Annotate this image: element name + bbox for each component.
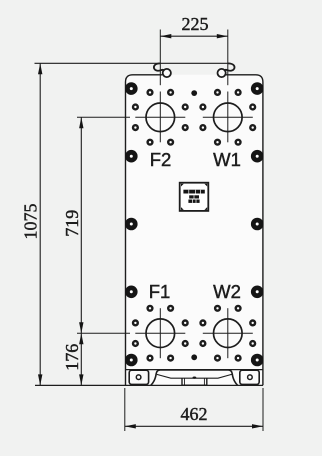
dim 462 extension left — [124, 388, 126, 431]
svg-text:W1: W1 — [213, 149, 241, 170]
svg-text:1075: 1075 — [20, 204, 40, 240]
frame edge bolt holes — [130, 87, 259, 361]
ground baseline — [35, 384, 263, 386]
svg-text:719: 719 — [62, 210, 82, 237]
lifting eye right — [218, 63, 235, 77]
centre stud top — [191, 90, 197, 96]
svg-text:462: 462 — [181, 404, 208, 424]
body bottom edge — [126, 369, 263, 371]
port F1 flange bolts — [133, 306, 188, 361]
dim 719 bottom extension — [77, 332, 130, 334]
svg-text:176: 176 — [62, 344, 82, 371]
nameplate — [180, 183, 209, 211]
dim 1075 line — [38, 63, 42, 385]
port W1 flange bolts — [201, 90, 256, 145]
bottom carrying bar — [151, 370, 238, 385]
port W2 — [203, 308, 253, 358]
dim 225 extension left — [159, 30, 161, 86]
port F1 — [135, 308, 185, 358]
port F2 flange bolts — [133, 90, 188, 145]
dim 719 top extension — [77, 116, 130, 118]
svg-text:225: 225 — [182, 14, 209, 34]
foot right — [240, 370, 259, 384]
dim 1075 top extension — [35, 62, 228, 64]
lifting eye left — [154, 63, 171, 77]
foot left — [129, 370, 148, 384]
centre stud bottom — [191, 354, 197, 360]
body front plate — [126, 75, 263, 386]
svg-text:W2: W2 — [213, 281, 241, 302]
frame edge bolts left — [125, 82, 138, 366]
dim 176 line — [79, 333, 83, 385]
dim 462 extension right — [262, 388, 264, 431]
dim 462 line — [125, 424, 263, 428]
dim 225 extension right — [227, 30, 229, 86]
port F2 — [135, 92, 185, 143]
dim 719 line — [79, 117, 83, 333]
port W1 — [203, 92, 253, 143]
port W2 flange bolts — [201, 306, 256, 361]
svg-text:F1: F1 — [149, 281, 171, 302]
dim 225 line — [160, 34, 228, 38]
svg-text:F2: F2 — [150, 149, 172, 170]
bottom support tab — [182, 377, 207, 386]
frame edge bolts right — [251, 82, 264, 366]
